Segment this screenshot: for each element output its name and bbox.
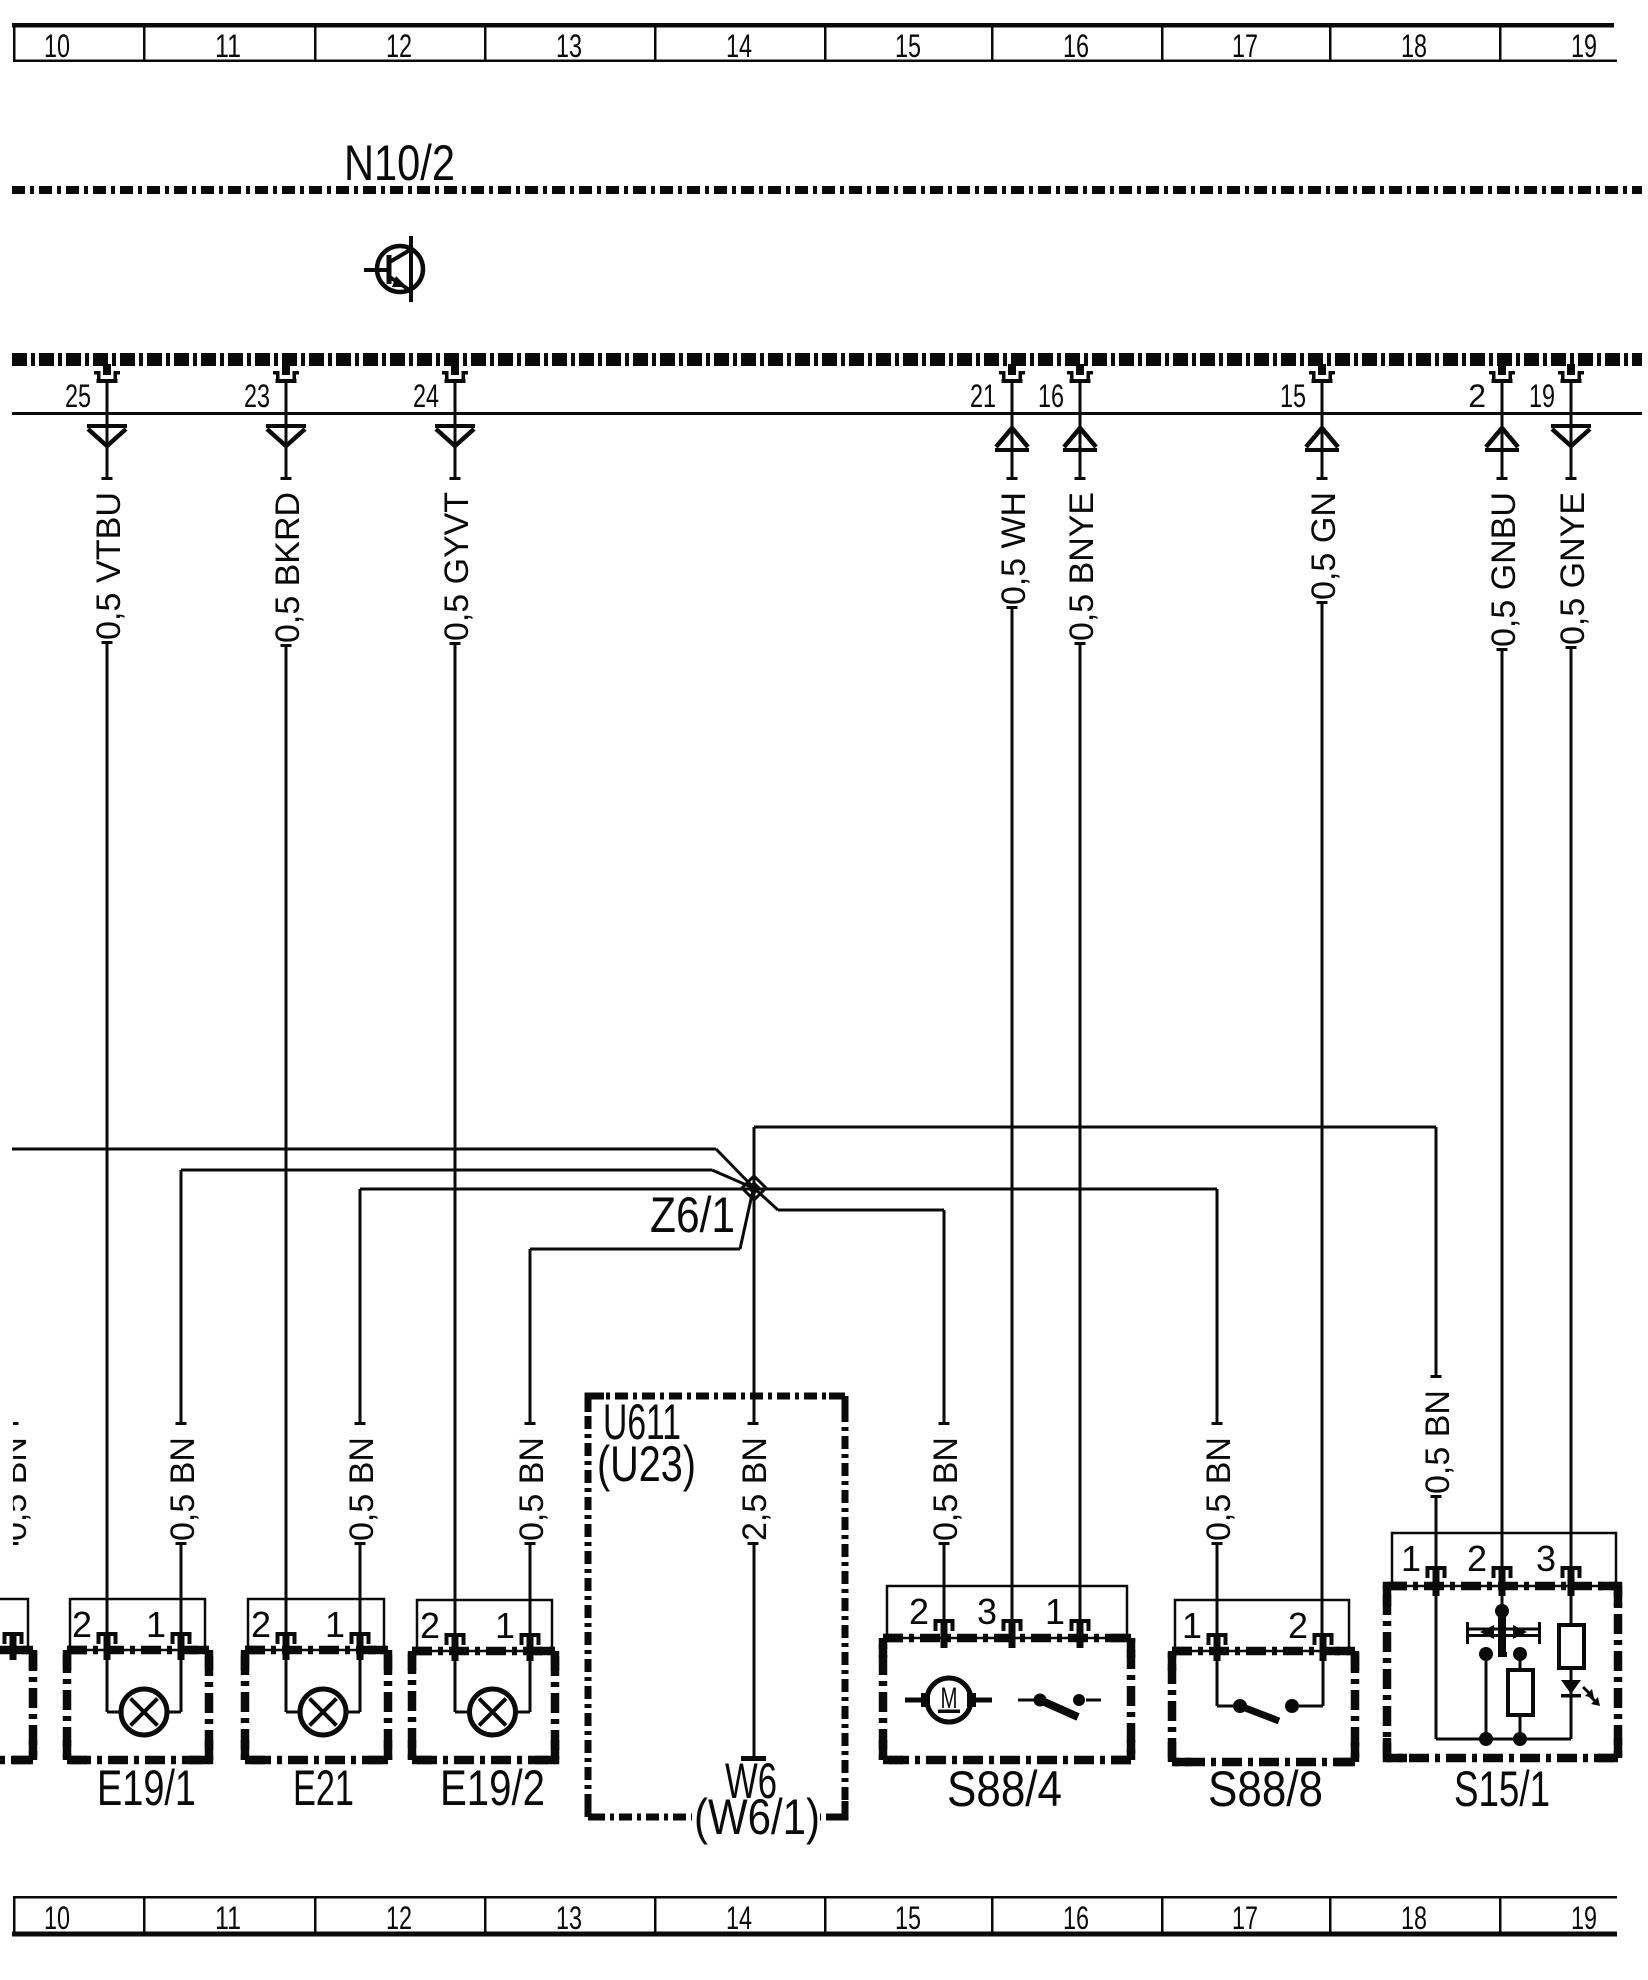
svg-text:19: 19 [1571, 1900, 1597, 1936]
svg-text:19: 19 [1529, 378, 1555, 414]
svg-text:14: 14 [726, 28, 752, 64]
svg-text:0,5 BN: 0,5 BN [343, 1437, 381, 1541]
svg-text:E21: E21 [293, 1760, 354, 1816]
svg-text:0,5 BN: 0,5 BN [164, 1437, 202, 1541]
svg-text:1: 1 [146, 1604, 166, 1645]
svg-text:1: 1 [325, 1604, 345, 1645]
svg-text:0,5 GYVT: 0,5 GYVT [438, 492, 476, 641]
svg-text:N10/2: N10/2 [344, 135, 455, 191]
svg-text:16: 16 [1063, 28, 1089, 64]
svg-text:12: 12 [386, 28, 412, 64]
svg-text:2: 2 [420, 1605, 440, 1646]
svg-text:2: 2 [72, 1604, 92, 1645]
svg-text:E19/2: E19/2 [440, 1760, 545, 1816]
svg-text:S88/8: S88/8 [1208, 1761, 1323, 1817]
svg-text:17: 17 [1232, 28, 1258, 64]
svg-text:2,5 BN: 2,5 BN [736, 1437, 774, 1541]
svg-text:3: 3 [1536, 1538, 1556, 1579]
svg-text:15: 15 [1280, 378, 1306, 414]
svg-text:13: 13 [556, 1900, 582, 1936]
svg-text:10: 10 [44, 28, 70, 64]
svg-text:0,5 BN: 0,5 BN [1419, 1390, 1457, 1494]
svg-text:0,5 BN: 0,5 BN [513, 1437, 551, 1541]
svg-text:2: 2 [1468, 378, 1486, 414]
svg-text:15: 15 [895, 1900, 921, 1936]
svg-text:14: 14 [726, 1900, 752, 1936]
svg-text:2: 2 [251, 1604, 271, 1645]
svg-text:2: 2 [1288, 1605, 1308, 1646]
svg-text:0,5 GN: 0,5 GN [1305, 492, 1343, 600]
svg-text:(W6/1): (W6/1) [694, 1789, 820, 1845]
svg-text:25: 25 [65, 378, 91, 414]
svg-text:18: 18 [1401, 1900, 1427, 1936]
svg-text:S15/1: S15/1 [1454, 1761, 1550, 1817]
svg-text:0,5 BNYE: 0,5 BNYE [1063, 492, 1101, 641]
svg-text:0,5 VTBU: 0,5 VTBU [90, 492, 128, 640]
svg-text:17: 17 [1232, 1900, 1258, 1936]
svg-text:0,5 BN: 0,5 BN [1200, 1437, 1238, 1541]
svg-text:12: 12 [386, 1900, 412, 1936]
svg-text:0,5 WH: 0,5 WH [995, 492, 1033, 605]
svg-text:23: 23 [244, 378, 270, 414]
svg-text:2: 2 [1467, 1538, 1487, 1579]
svg-text:1: 1 [1045, 1591, 1065, 1632]
svg-text:Z6/1: Z6/1 [650, 1187, 735, 1243]
svg-text:16: 16 [1038, 378, 1064, 414]
svg-text:24: 24 [413, 378, 439, 414]
svg-text:19: 19 [1571, 28, 1597, 64]
svg-text:S88/4: S88/4 [947, 1761, 1062, 1817]
svg-text:0,5 GNBU: 0,5 GNBU [1485, 492, 1523, 647]
svg-text:0,5 BKRD: 0,5 BKRD [269, 492, 307, 643]
svg-text:11: 11 [215, 1900, 241, 1936]
svg-text:3: 3 [977, 1591, 997, 1632]
svg-text:2: 2 [909, 1591, 929, 1632]
svg-text:11: 11 [215, 28, 241, 64]
svg-text:1: 1 [1401, 1538, 1421, 1579]
svg-text:1: 1 [495, 1605, 515, 1646]
svg-text:10: 10 [44, 1900, 70, 1936]
svg-text:16: 16 [1063, 1900, 1089, 1936]
svg-text:21: 21 [970, 378, 996, 414]
svg-text:1: 1 [1182, 1605, 1202, 1646]
svg-text:E19/1: E19/1 [97, 1760, 196, 1816]
svg-text:(U23): (U23) [597, 1436, 696, 1492]
svg-text:13: 13 [556, 28, 582, 64]
svg-text:15: 15 [895, 28, 921, 64]
svg-text:0,5 BN: 0,5 BN [927, 1437, 965, 1541]
svg-text:18: 18 [1401, 28, 1427, 64]
svg-text:0,5 GNYE: 0,5 GNYE [1554, 492, 1592, 645]
